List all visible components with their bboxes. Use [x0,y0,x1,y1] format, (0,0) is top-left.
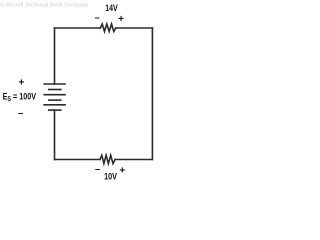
wire top-left horizontal [55,27,101,29]
resistor R2 (bottom) zigzag [100,155,115,163]
svg-text:−: − [94,13,99,23]
svg-text:© Aircraft Technical Book Comp: © Aircraft Technical Book Company [1,1,89,8]
wire bottom-right horizontal [115,159,152,161]
svg-text:+: + [18,77,24,88]
resistor R1 (top) zigzag [100,24,116,32]
battery ES short plate 3 [49,109,61,111]
battery ES long plate 1 [44,83,65,85]
wire right vertical [151,28,153,160]
svg-text:−: − [95,165,100,175]
svg-text:14V: 14V [105,3,118,13]
wire left vertical lower (battery minus to bottom wire) [54,110,56,159]
battery ES long plate 3 [44,104,65,106]
svg-text:−: − [18,108,23,118]
svg-text:10V: 10V [104,172,118,182]
wire left vertical upper (top wire to battery plus) [54,28,56,84]
battery ES short plate 2 [49,99,61,101]
battery ES short plate 1 [49,89,61,91]
battery ES long plate 2 [44,94,65,96]
wire top-right horizontal [116,27,153,29]
wire bottom-left horizontal [55,159,100,161]
svg-text:+: + [118,14,124,25]
svg-text:+: + [119,166,125,177]
